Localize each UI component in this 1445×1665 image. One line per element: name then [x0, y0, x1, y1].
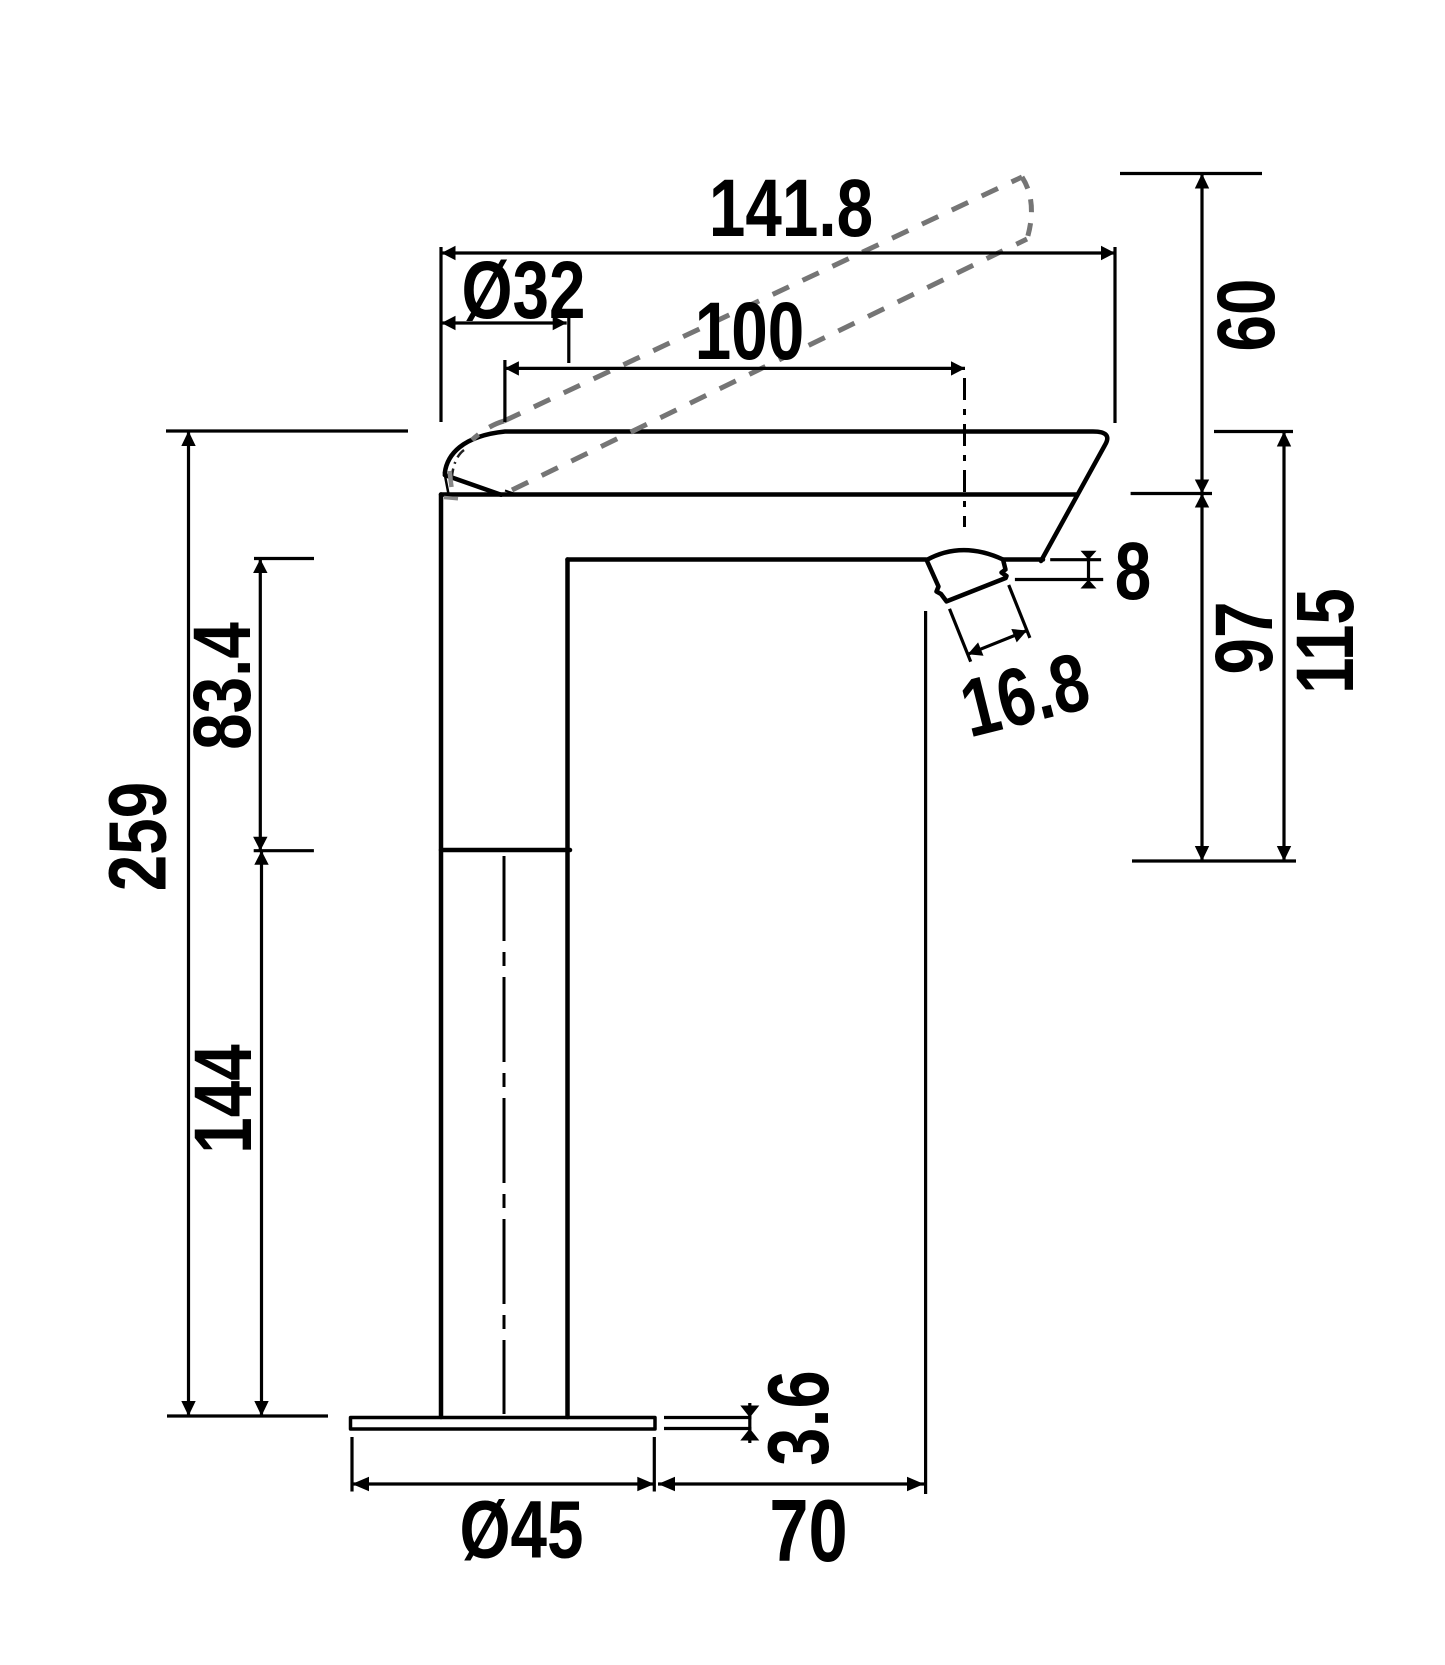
svg-text:115: 115 — [1279, 588, 1371, 694]
dim 115 line — [1282, 432, 1285, 862]
hidden dash-dot arc in lever tip — [452, 450, 465, 481]
body centerline — [503, 856, 506, 1414]
faucet lever underside line — [441, 492, 1076, 497]
arrow 60 top — [1195, 174, 1209, 189]
aerator outline — [927, 550, 1007, 601]
dim 144 line — [260, 851, 263, 1416]
dim 70 right extension — [924, 611, 927, 1494]
dim O32 line — [442, 321, 567, 324]
dashed raised lever bottom edge — [512, 239, 1027, 490]
arrow 100 right — [951, 361, 965, 375]
faucet body inner edge — [565, 560, 570, 851]
svg-text:100: 100 — [695, 285, 804, 377]
dim 60 bottom extension — [1131, 492, 1212, 495]
svg-text:97: 97 — [1198, 602, 1290, 675]
arrow 144 top — [254, 851, 268, 865]
dim 8 stem — [1087, 552, 1090, 589]
dim 8 bottom extension — [1015, 578, 1103, 581]
arrow 8 top outside — [1081, 551, 1097, 560]
arrow 115 bottom — [1277, 846, 1291, 861]
dim 83.4 top extension — [254, 557, 314, 560]
dim 3.6 top extension — [664, 1416, 751, 1419]
faucet lower column right edge — [565, 850, 570, 1417]
dim 70 line — [658, 1482, 924, 1485]
arrow 3.6 bottom outside — [740, 1429, 759, 1441]
arrow 144 bottom — [254, 1401, 268, 1416]
dim 115 top extension — [1214, 430, 1293, 433]
dim 100 line — [504, 367, 965, 370]
faucet lever left tiny edge — [445, 473, 449, 494]
svg-text:60: 60 — [1200, 279, 1292, 352]
gray hinge tick horizontal — [444, 498, 458, 499]
svg-text:Ø45: Ø45 — [460, 1484, 584, 1576]
arrow O45 right — [637, 1477, 654, 1491]
dim 16.8 left extension — [950, 609, 971, 662]
dim 3.6 stem — [748, 1403, 751, 1443]
faucet body left edge — [439, 495, 444, 1418]
arrow 3.6 top outside — [740, 1406, 759, 1418]
svg-text:144: 144 — [177, 1044, 269, 1153]
arrow 259 top — [181, 431, 195, 446]
dim 259 line — [187, 431, 190, 1416]
dim 259 top extension — [166, 429, 408, 432]
faucet lever top outline — [445, 432, 1107, 562]
dim 16.8 line — [968, 631, 1027, 655]
dim O45 line — [352, 1482, 654, 1485]
arrow 97 bottom — [1195, 846, 1209, 861]
dim O32 right extension — [567, 316, 570, 363]
svg-text:141.8: 141.8 — [709, 162, 873, 254]
svg-text:Ø32: Ø32 — [462, 244, 586, 336]
arrow 115 top — [1277, 432, 1291, 447]
dim 141.8 line — [442, 251, 1116, 254]
arrow 97 top — [1195, 494, 1209, 508]
arrow 16.8 right — [1011, 629, 1027, 642]
dim O45 right extension — [653, 1437, 656, 1492]
svg-text:259: 259 — [92, 782, 184, 891]
dim 97 line — [1200, 494, 1203, 862]
dim 83.4 bottom extension — [254, 849, 314, 852]
arrow O32 right — [553, 316, 567, 330]
arrow 259 bottom — [181, 1401, 195, 1416]
faucet arm underside right of aerator — [1004, 557, 1044, 562]
arrow O32 left — [442, 316, 456, 330]
dim O45 left extension — [350, 1437, 353, 1492]
arrow 100 left — [505, 361, 519, 375]
svg-text:8: 8 — [1115, 525, 1151, 617]
arrow 70 right — [907, 1477, 924, 1491]
dim 97 bottom extension — [1132, 859, 1296, 862]
dim 259 bottom extension — [167, 1414, 328, 1417]
dim 3.6 bottom extension — [664, 1427, 751, 1430]
arrow 83.4 bottom — [253, 837, 267, 851]
dim 141.8 right extension — [1113, 247, 1116, 423]
dim 60 line — [1200, 174, 1203, 494]
svg-text:70: 70 — [769, 1481, 847, 1579]
dashed raised lever left cap arc — [472, 421, 504, 440]
arrow 83.4 top — [253, 559, 267, 573]
arrow 141.8 right — [1101, 246, 1115, 260]
arrow 60 bottom — [1195, 480, 1209, 494]
faucet body separation line — [441, 848, 570, 853]
dim 83.4 line — [259, 559, 262, 851]
faucet arm underside left of aerator — [568, 557, 927, 562]
svg-text:3.6: 3.6 — [751, 1370, 847, 1466]
arrow 141.8 left — [442, 246, 456, 260]
dim 60 top extension — [1120, 172, 1262, 175]
dashed raised lever tip arc — [1022, 177, 1031, 239]
arrow O45 left — [352, 1477, 369, 1491]
dim 141.8 left extension — [439, 247, 442, 422]
arrow 8 bottom outside — [1081, 580, 1097, 589]
dim 8 top extension — [1050, 558, 1101, 561]
dim 16.8 right extension — [1009, 585, 1030, 638]
faucet lever bottom-left cut — [445, 475, 501, 495]
svg-text:83.4: 83.4 — [176, 622, 268, 750]
arrow 70 left — [658, 1477, 675, 1491]
base plate — [351, 1418, 656, 1430]
aerator centerline — [963, 378, 966, 527]
dim 100 left extension — [503, 360, 506, 422]
gray hinge tick vertical — [450, 471, 452, 487]
thin hidden line at lever corner — [505, 491, 520, 496]
arrow 16.8 left — [968, 642, 984, 655]
dashed raised lever top edge — [504, 177, 1022, 421]
